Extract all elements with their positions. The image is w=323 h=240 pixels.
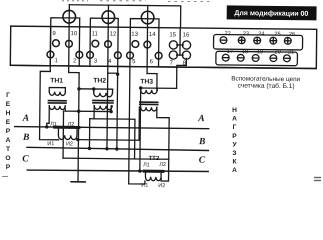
svg-text:ТТ2: ТТ2: [148, 156, 159, 162]
VT2 primary top bar / H1b bus: [79, 88, 113, 90]
svg-text:А: А: [22, 114, 29, 124]
svg-text:2: 2: [73, 58, 77, 64]
junction dot line B VT2 secondary left: [88, 147, 91, 150]
VT3 secondary left lead down to H3b: [78, 106, 140, 140]
junction dot H1c VT3: [139, 86, 142, 89]
svg-text:С: С: [22, 154, 29, 164]
cropped text remnants top edge: [2, 1, 321, 181]
svg-text:И2: И2: [158, 183, 165, 189]
aux terminal 19: [252, 55, 259, 62]
svg-text:А: А: [197, 114, 204, 124]
meter case outline: [10, 26, 316, 68]
junction dot H1b left: [77, 87, 80, 90]
svg-text:Е: Е: [6, 101, 11, 108]
svg-text:Р: Р: [6, 128, 11, 135]
line A: [15, 127, 209, 129]
VT2 primary winding: [94, 93, 113, 97]
svg-text:17: 17: [227, 49, 233, 55]
wire jog M1 to ground column: [68, 73, 80, 182]
svg-text:10: 10: [71, 31, 78, 37]
CT2 secondary winding: [145, 173, 161, 181]
junction dot H1b VT2 primary: [92, 87, 95, 90]
terminal 12 circle: [105, 41, 112, 48]
svg-text:Г: Г: [6, 92, 10, 99]
bracket phase B (cross bar through M2): [90, 18, 118, 27]
svg-text:5: 5: [132, 59, 136, 65]
wire terminal 3 vertical: [89, 27, 91, 66]
svg-text:1: 1: [55, 58, 59, 64]
aux terminal box bottom: [216, 51, 298, 65]
svg-text:счетчика (таб. Б.1): счетчика (таб. Б.1): [238, 81, 295, 90]
svg-text:14: 14: [149, 32, 156, 38]
VT1 primary winding: [49, 92, 65, 96]
svg-text:23: 23: [243, 31, 249, 37]
H3b bus: [63, 158, 169, 159]
CT1 primary thick bar on line A: [55, 126, 79, 129]
aux terminal 23: [238, 37, 245, 44]
meter element circle M1: [63, 10, 76, 23]
aux terminal 17: [222, 54, 229, 61]
bracket phase A (cross bar through M1): [51, 18, 80, 27]
svg-text:Е: Е: [6, 119, 11, 126]
wire terminal 8 down-jog: [177, 58, 187, 88]
svg-text:ТН3: ТН3: [140, 78, 153, 85]
VT1 secondary right lead to H2 bus: [64, 106, 66, 111]
terminal 7 circle: [169, 51, 177, 59]
wire terminal 4 vertical: [117, 27, 118, 150]
VT1 secondary left lead to line A: [47, 106, 50, 127]
ground symbol: [71, 181, 85, 183]
svg-text:24: 24: [258, 31, 264, 37]
junction dot H2 VT2 secondary: [109, 110, 112, 113]
VT3 primary winding: [141, 90, 158, 94]
wire terminal 5 vertical to CT2 secondary: [129, 27, 147, 184]
wire jog M2 to terminal-4 wire: [108, 72, 118, 74]
terminal 3 circle: [87, 52, 94, 59]
VT3 primary left lead: [140, 88, 142, 90]
svg-text:В: В: [198, 137, 205, 147]
terminal 6 circle: [155, 52, 162, 59]
wire M1 vertical through terminal 10: [68, 5, 71, 73]
svg-text:Т: Т: [6, 146, 10, 153]
svg-text:Р: Р: [6, 164, 11, 171]
VT2 primary side leads: [93, 89, 95, 93]
wire jog terminal 1 to left column: [40, 71, 60, 139]
svg-text:И1: И1: [47, 141, 54, 147]
junction dot line C VT3 column: [138, 169, 141, 172]
svg-text:И1: И1: [141, 183, 148, 189]
svg-text:О: О: [5, 155, 10, 162]
modification label box: [227, 6, 316, 20]
block bottom edge: [10, 65, 316, 68]
wire M2 vertical through terminal 12: [107, 5, 110, 73]
svg-text:3: 3: [94, 59, 98, 65]
wire terminal 6 vertical: [158, 28, 160, 67]
svg-text:А: А: [232, 167, 237, 174]
junction dot line B ground column: [76, 138, 79, 141]
wire terminal 1 vertical: [49, 27, 51, 72]
svg-text:26: 26: [289, 32, 295, 38]
svg-text:С: С: [199, 156, 206, 166]
top bus wire: [69, 5, 181, 28]
VT1 primary top bar: [49, 88, 65, 92]
junction dot terminal 4 wire: [116, 73, 119, 76]
wire terminal 2 vertical: [78, 27, 80, 66]
CT2 primary thick bar on line C: [144, 170, 163, 173]
junction dot H3a VT2 primary column: [105, 147, 108, 150]
junction dot H2 ground column: [77, 110, 80, 113]
svg-text:13: 13: [131, 32, 138, 38]
line C: [27, 170, 208, 172]
wire jog M3 to VT3 primary lead: [147, 74, 157, 91]
CT1 secondary winding: [58, 129, 77, 140]
svg-text:А: А: [232, 116, 237, 123]
H2 bus (VT secondaries): [65, 110, 111, 112]
aux terminal box top: [213, 34, 302, 50]
VT3 core bars: [139, 101, 159, 103]
aux terminal 24: [254, 37, 261, 44]
aux terminal 20: [270, 55, 277, 62]
svg-text:Н: Н: [6, 110, 11, 117]
svg-text:18: 18: [242, 49, 248, 55]
VT2 secondary left lead jog to line B: [93, 106, 95, 119]
svg-text:12: 12: [110, 32, 117, 38]
line B: [27, 147, 209, 150]
aux terminal 21: [283, 55, 290, 62]
VT2 secondary winding: [94, 106, 112, 110]
svg-text:7: 7: [170, 61, 174, 67]
meter element circle M2: [102, 11, 115, 24]
junction dot H3a right end: [115, 147, 118, 150]
junction dot line A / VT1 secondary: [45, 125, 48, 128]
terminal 13 circle: [132, 41, 139, 48]
wire VT3 primary junction down to line C: [139, 88, 142, 171]
svg-text:19: 19: [257, 49, 263, 55]
terminal 14 circle: [144, 41, 151, 48]
svg-text:ТН2: ТН2: [93, 77, 106, 84]
H1c bus (VT3 primary to terminal 8): [141, 87, 177, 89]
svg-text:Для модификации 00: Для модификации 00: [234, 10, 308, 18]
terminal 8 circle: [182, 51, 190, 59]
svg-text:Г: Г: [233, 124, 237, 131]
svg-text:ТН1: ТН1: [50, 78, 63, 85]
VT2 core bars: [92, 100, 114, 102]
terminal 1 circle: [47, 51, 54, 58]
VT2 primary left lead: [93, 89, 95, 93]
link terminals 15-16: [177, 44, 183, 46]
svg-text:А: А: [6, 137, 11, 144]
VT2 secondary right lead to H2: [110, 106, 112, 112]
terminal 15 circle: [169, 41, 177, 49]
VT1 right lead branch down to H3b bus: [62, 111, 64, 158]
aux terminal 18: [237, 54, 244, 61]
terminal 5 circle: [127, 52, 134, 59]
svg-text:Л2: Л2: [159, 162, 166, 168]
meter element circle M3: [141, 11, 154, 24]
svg-text:В: В: [22, 133, 29, 143]
terminal 16 circle: [182, 41, 190, 49]
svg-text:У: У: [232, 141, 237, 148]
svg-text:Н: Н: [232, 107, 237, 114]
aux terminal 22: [220, 37, 227, 44]
svg-text:З: З: [232, 150, 236, 157]
svg-text:Л1: Л1: [50, 122, 57, 128]
svg-text:Р: Р: [232, 133, 237, 140]
wire M2 column down to line B: [106, 73, 109, 149]
VT3 primary right lead: [156, 88, 158, 90]
aux terminal 25: [270, 37, 277, 44]
wire H2b down to line B: [88, 119, 90, 149]
VT1 core bars: [48, 100, 67, 102]
LOAD vertical caption: [232, 107, 237, 174]
VT3 secondary right lead down to CT2 I2: [156, 107, 169, 181]
svg-text:Л1: Л1: [143, 162, 150, 168]
svg-text:И2: И2: [66, 141, 73, 147]
terminal 9 circle: [53, 40, 60, 47]
svg-text:25: 25: [274, 32, 280, 38]
terminal 10 circle: [66, 40, 73, 47]
svg-text:6: 6: [150, 59, 154, 65]
terminal 11 circle: [92, 40, 99, 47]
VT1 secondary winding: [49, 106, 65, 110]
aux terminal 26: [284, 37, 291, 44]
H2b bus (VT secondary interconnect): [89, 119, 135, 159]
svg-text:20: 20: [274, 49, 280, 55]
svg-text:15: 15: [169, 32, 176, 38]
terminal 2 circle: [76, 51, 83, 58]
svg-text:21: 21: [288, 50, 294, 56]
svg-text:11: 11: [92, 31, 99, 37]
VT3 secondary winding: [141, 107, 157, 111]
svg-text:9: 9: [52, 31, 56, 37]
link terminals 7-8: [177, 54, 183, 56]
wire into cluster from case top: [179, 28, 181, 55]
case divider (left empty bay wall): [49, 27, 51, 66]
terminal 4 circle: [114, 52, 121, 59]
svg-text:16: 16: [183, 33, 190, 39]
svg-text:Л2: Л2: [68, 122, 75, 128]
bracket phase C (cross bar through M3): [130, 19, 159, 28]
svg-text:К: К: [232, 159, 237, 166]
GENERATOR vertical caption: [5, 92, 10, 171]
svg-text:4: 4: [108, 59, 112, 65]
wire M3 vertical through terminal 14: [146, 6, 149, 74]
svg-text:22: 22: [225, 31, 231, 37]
